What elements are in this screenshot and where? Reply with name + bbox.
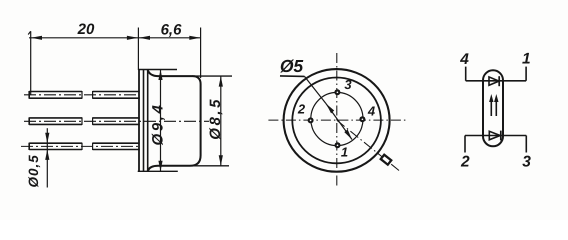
extension line at can right face <box>200 28 202 79</box>
svg-text:3: 3 <box>344 77 352 92</box>
flange top edge + extension for 9.4 <box>138 69 177 71</box>
svg-text:3: 3 <box>522 154 531 171</box>
diode VD1 (top, photodiode) <box>489 77 499 85</box>
vertical centerline <box>336 53 338 188</box>
can body outline <box>148 70 201 171</box>
svg-text:2: 2 <box>297 102 306 117</box>
extension line at pin tips <box>30 31 32 95</box>
dimension line 20 / 6.6 (shared horizontal line) <box>29 37 201 39</box>
body top edge extension for 8.5 <box>192 75 232 77</box>
body bottom edge extension for 8.5 <box>189 165 229 167</box>
outer circle of can <box>284 69 390 172</box>
extension line at flange face <box>137 28 139 71</box>
pins 2,4 (middle row) lead + can axis <box>24 117 209 125</box>
pin 1 dot (bottom) <box>335 142 341 148</box>
diode VD2 (bottom, emitter) <box>489 131 500 140</box>
pin 2 dot (left) <box>308 117 314 123</box>
pin 4 dot (right) <box>359 116 365 122</box>
pin circle <box>311 92 363 145</box>
svg-text:Ø5: Ø5 <box>280 56 304 76</box>
svg-text:4: 4 <box>367 104 376 119</box>
arrow left of dim 6.6 <box>139 36 150 40</box>
flange bottom edge + extension for 9.4 <box>138 170 178 172</box>
wire top <box>466 80 526 82</box>
pin 2 tick <box>464 136 466 153</box>
horizontal centerline <box>268 119 406 121</box>
dimension 5 (pin circle) <box>280 56 352 140</box>
light arrow b <box>495 98 497 117</box>
svg-text:4: 4 <box>459 51 469 68</box>
svg-text:Ø8,5: Ø8,5 <box>207 97 224 140</box>
dimension line 9.4 <box>150 70 167 172</box>
pin 1 (bottom row) lead <box>21 143 140 150</box>
pin 4 tick <box>465 67 467 81</box>
arrow right of dim 20 <box>127 36 138 40</box>
wire bottom <box>465 135 526 137</box>
light arrow a <box>490 98 492 117</box>
key tab <box>381 155 392 165</box>
arrow right of dim 6.6 <box>189 36 200 40</box>
svg-text:1: 1 <box>522 51 531 68</box>
svg-text:6,6: 6,6 <box>161 22 183 39</box>
can flange (3 vertical lines) <box>138 70 140 172</box>
package outline capsule <box>483 70 503 146</box>
svg-text:20: 20 <box>77 21 95 38</box>
dimension lead diameter 0.5 <box>26 128 49 187</box>
svg-text:1: 1 <box>341 145 348 160</box>
svg-text:Ø9,4: Ø9,4 <box>150 103 167 146</box>
svg-text:Ø0,5: Ø0,5 <box>26 154 41 187</box>
pin 3 (top row) lead <box>24 91 140 99</box>
dimension line 8.5 <box>207 76 224 166</box>
pin 1 tick <box>525 67 527 81</box>
inner ring <box>292 78 381 164</box>
arrow left of dim 20 <box>31 36 42 40</box>
pin 3 dot (top) <box>334 89 340 95</box>
key tab centerline <box>337 120 399 170</box>
pin 3 tick <box>525 136 527 153</box>
svg-text:2: 2 <box>460 154 470 171</box>
